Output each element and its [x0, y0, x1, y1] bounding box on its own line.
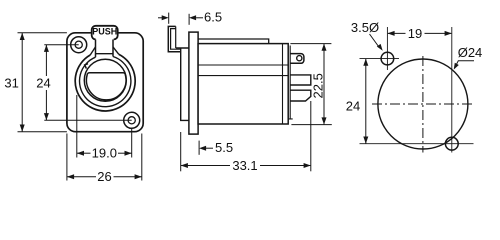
extension line hole right x: [131, 129, 133, 158]
extension line hole bottom: [44, 119, 131, 121]
dimension 22.5 extension top: [290, 43, 331, 45]
side view internal vertical near back: [282, 44, 284, 124]
side view ground lug bend edge: [175, 26, 177, 48]
extension line plate top: [18, 32, 67, 34]
extension line plate left: [66, 134, 68, 181]
template hole bottom-right crosshair: [360, 143, 474, 145]
dimension 24 line (template): [365, 59, 367, 144]
svg-text:24: 24: [36, 75, 50, 90]
latch stem left: [95, 39, 97, 57]
side view latch strip on top: [198, 39, 269, 44]
dimension 19.0 line: [77, 152, 91, 154]
dimension 6.5 right arrow: [188, 14, 190, 25]
side view back inner line: [288, 46, 293, 119]
dimension 33.1 extension right: [310, 101, 312, 171]
extension line plate bottom: [18, 131, 67, 133]
extension line plate right: [141, 134, 143, 181]
dimension 33.1 line: [181, 165, 230, 167]
svg-text:22.5: 22.5: [311, 73, 326, 98]
dimension 26 line: [67, 176, 96, 178]
insert circle: [84, 59, 126, 101]
side view ground lug inner: [171, 29, 181, 50]
svg-text:5.5: 5.5: [215, 140, 233, 155]
side view body internal line lower: [198, 75, 288, 77]
svg-text:Ø24: Ø24: [458, 45, 483, 60]
PUSH button tab: [92, 26, 118, 40]
side view gasket: [176, 48, 189, 120]
front view mounting plate: [67, 33, 143, 132]
ring inner circle: [80, 57, 131, 107]
dimension 31 line: [21, 33, 23, 132]
svg-text:24: 24: [346, 99, 360, 114]
keyway notch: [85, 64, 88, 69]
side view body: [198, 44, 288, 124]
template centerline horizontal: [372, 103, 474, 105]
svg-text:3.5Ø: 3.5Ø: [351, 20, 379, 35]
dimension 5.5: [198, 141, 200, 155]
side view ground lug outer: [168, 26, 180, 51]
dimension 24 line: [45, 45, 47, 76]
side view flange: [189, 32, 198, 134]
screw hole top-left: [71, 37, 87, 53]
screw hole bottom-right: [124, 112, 140, 128]
template hole top-left crosshair: [360, 58, 400, 60]
side view ground terminal with hole: [290, 54, 304, 64]
svg-text:31: 31: [4, 75, 18, 90]
dimension 19 line: [388, 32, 406, 34]
dimension 22.5 extension bottom: [291, 124, 331, 126]
D-shaped recess: [86, 73, 126, 100]
dimension 22.5 line: [323, 44, 325, 125]
svg-text:PUSH: PUSH: [92, 27, 117, 37]
svg-text:6.5: 6.5: [204, 10, 222, 25]
extension line hole left x: [76, 95, 78, 158]
side view solder tab 1: [290, 75, 311, 85]
dimension 33.1 extension left: [180, 132, 182, 171]
latch stem right: [112, 39, 114, 56]
dimension 6.5 left arrow: [158, 17, 163, 19]
template big circle: [378, 59, 468, 149]
template hole bottom-right: [445, 137, 458, 150]
latch shoulder left: [90, 47, 95, 55]
svg-text:33.1: 33.1: [232, 158, 257, 173]
template hole top-left: [381, 52, 394, 65]
latch foot chord: [96, 53, 114, 55]
svg-text:19: 19: [408, 26, 422, 41]
svg-text:26: 26: [97, 169, 111, 184]
extension line hole top: [44, 44, 78, 46]
side view body internal line upper: [198, 64, 288, 66]
template centerline vertical: [422, 56, 424, 153]
latch shoulder right: [113, 47, 119, 54]
side view solder tab 2: [290, 90, 311, 101]
outer shell circle (with latch gap at top): [75, 54, 135, 111]
svg-text:19.0: 19.0: [92, 146, 117, 161]
